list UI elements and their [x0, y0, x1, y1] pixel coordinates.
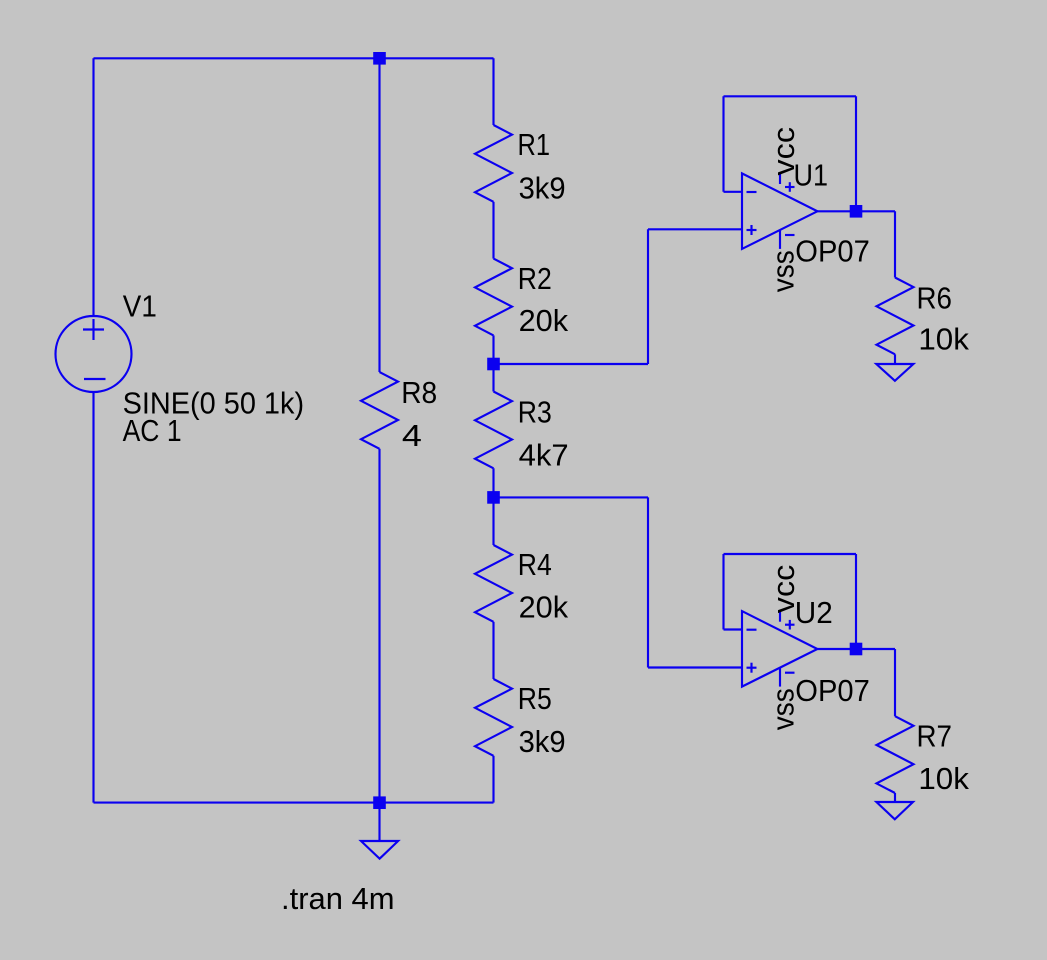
svg-text:4k7: 4k7 — [519, 438, 569, 473]
svg-text:OP07: OP07 — [795, 673, 870, 708]
node U1 output — [850, 205, 863, 218]
wire U2 feedback left — [722, 554, 724, 630]
svg-text:R7: R7 — [917, 719, 953, 754]
svg-text:vss: vss — [766, 250, 801, 292]
U1 vcc plus mark — [785, 186, 795, 188]
wire U1 feedback top — [724, 95, 857, 97]
U2 vcc plus mark — [785, 624, 795, 626]
ground — [361, 841, 398, 859]
U1 non-inverting input mark — [747, 229, 757, 231]
svg-text:R4: R4 — [518, 547, 552, 582]
U2 vss minus mark — [785, 672, 795, 674]
svg-text:10k: 10k — [918, 761, 969, 796]
V1 minus mark — [84, 378, 106, 380]
svg-text:20k: 20k — [519, 589, 569, 624]
wire V1 bottom lead — [92, 392, 94, 803]
ground (R6) — [876, 364, 913, 381]
wire U1 output — [817, 210, 895, 212]
wire R5 bottom lead — [492, 756, 494, 803]
op-amp U2 — [742, 611, 817, 687]
wire U1 inverting input — [724, 191, 743, 193]
U1 vcc pin stub — [779, 173, 781, 184]
U2 triangle body — [742, 611, 817, 687]
node U2 output — [850, 643, 863, 656]
svg-text:3k9: 3k9 — [519, 724, 566, 759]
wire U1 feedback left — [722, 96, 724, 192]
node top junction — [373, 52, 386, 65]
svg-text:V1: V1 — [123, 289, 157, 324]
svg-text:R1: R1 — [518, 127, 551, 162]
node bottom junction — [373, 796, 386, 809]
svg-text:R5: R5 — [518, 681, 552, 716]
svg-text:OP07: OP07 — [795, 234, 870, 269]
wire U2 output — [817, 648, 895, 650]
svg-text:3k9: 3k9 — [519, 171, 566, 206]
svg-text:vcc: vcc — [766, 565, 801, 614]
U1 triangle body — [742, 173, 817, 249]
svg-text:vss: vss — [766, 688, 801, 730]
svg-text:AC 1: AC 1 — [123, 413, 182, 448]
V1 plus mark — [83, 328, 104, 330]
wire R1-R2 — [492, 202, 494, 259]
wire R4-R5 — [492, 622, 494, 679]
svg-text:R8: R8 — [401, 375, 437, 410]
resistor R4 — [475, 545, 512, 622]
svg-text:20k: 20k — [519, 303, 569, 338]
op-amp U1 — [742, 173, 817, 249]
wire U1 feedback right — [855, 96, 857, 211]
wire left rail — [92, 58, 94, 316]
wire node A to U1 — [494, 363, 649, 365]
node mid junction B — [487, 491, 500, 504]
resistor R6 — [877, 278, 914, 355]
wire top rail — [94, 57, 494, 59]
wire U2 feedback right — [855, 554, 857, 649]
wire R8 column top — [378, 58, 380, 372]
ground (R7) — [876, 802, 913, 819]
resistor R2 — [475, 259, 512, 336]
U2 vcc pin stub — [779, 611, 781, 622]
resistor R3 — [475, 392, 512, 469]
wire U2 feedback top — [724, 553, 857, 555]
wire U2 inverting input — [724, 628, 743, 630]
svg-text:10k: 10k — [918, 321, 969, 356]
resistor R1 — [475, 125, 512, 202]
wire R6 top lead — [894, 211, 896, 277]
wire R6 bottom lead — [894, 354, 896, 364]
svg-text:R3: R3 — [518, 394, 552, 429]
svg-text:4: 4 — [402, 418, 422, 453]
U1 vss pin stub — [779, 230, 781, 249]
wire bottom rail — [94, 802, 494, 804]
U1 vss minus mark — [785, 234, 795, 236]
wire R2-R3 — [492, 335, 494, 391]
resistor R8 — [361, 372, 398, 449]
node mid junction A — [487, 358, 500, 371]
V1 body circle — [56, 316, 132, 392]
resistor R5 — [475, 679, 512, 756]
wire R7 top lead — [894, 649, 896, 716]
svg-text:R6: R6 — [917, 281, 953, 316]
resistor R7 — [877, 716, 914, 793]
U2 inverting input mark — [747, 629, 757, 631]
wire R7 bottom lead — [894, 793, 896, 802]
svg-text:.tran 4m: .tran 4m — [281, 881, 395, 916]
voltage source V1 — [56, 316, 132, 392]
wire R8 bottom / ground stem — [378, 449, 380, 841]
U1 inverting input mark — [747, 191, 757, 193]
wire node B to U2 — [494, 496, 649, 498]
wire ladder top lead — [492, 58, 494, 125]
svg-text:R2: R2 — [518, 261, 552, 296]
U2 vss pin stub — [779, 668, 781, 687]
U2 non-inverting input mark — [747, 667, 757, 669]
svg-text:vcc: vcc — [766, 127, 801, 176]
wire R3-R4 — [492, 468, 494, 545]
